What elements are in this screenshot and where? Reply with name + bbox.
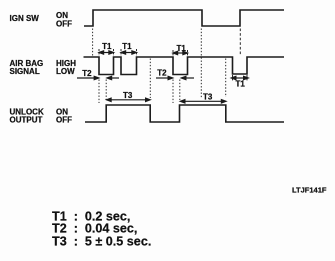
svg-text:OFF: OFF	[56, 20, 72, 29]
svg-text:LTJF141F: LTJF141F	[292, 186, 327, 195]
svg-text:T1: T1	[102, 42, 112, 51]
svg-text:T3: T3	[123, 91, 133, 100]
svg-text:T3: T3	[203, 93, 213, 102]
svg-text:T1: T1	[236, 79, 246, 88]
svg-text:T1: T1	[122, 42, 132, 51]
svg-text:OUTPUT: OUTPUT	[10, 115, 43, 124]
svg-text:OFF: OFF	[56, 115, 72, 124]
svg-text:SIGNAL: SIGNAL	[10, 67, 40, 76]
svg-text:T1: T1	[177, 44, 187, 53]
svg-text:T2: T2	[157, 68, 167, 77]
svg-text:ON: ON	[56, 11, 68, 20]
svg-text:T3 : 5 ± 0.5 sec.: T3 : 5 ± 0.5 sec.	[52, 234, 151, 248]
svg-text:IGN SW: IGN SW	[10, 14, 40, 23]
svg-text:LOW: LOW	[56, 67, 75, 76]
svg-text:T2: T2	[82, 69, 92, 78]
